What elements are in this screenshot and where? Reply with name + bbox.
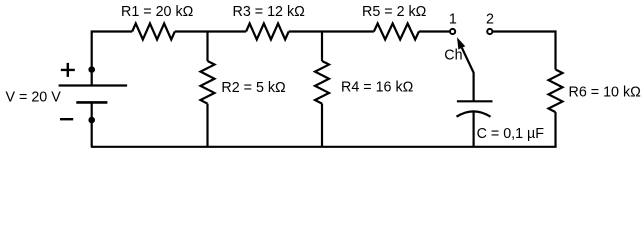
capacitor C top plate <box>457 100 493 102</box>
wire: R3 to R5 <box>289 30 374 32</box>
plus sign at battery <box>61 63 75 77</box>
switch Ch blade: diagonal arm and vertical drop to capacitor <box>462 48 474 101</box>
minus sign at battery <box>60 118 73 120</box>
battery V positive plate (long) <box>59 84 128 86</box>
resistor R6 <box>549 70 563 113</box>
svg-text:R2 = 5 kΩ: R2 = 5 kΩ <box>221 80 286 96</box>
resistor R3 <box>246 24 289 40</box>
svg-text:R6 = 10 kΩ: R6 = 10 kΩ <box>569 85 642 101</box>
svg-text:R4 = 16 kΩ: R4 = 16 kΩ <box>341 80 414 96</box>
wire: switch terminal 2 to top-right corner down to R6 <box>493 32 556 70</box>
svg-text:V = 20 V: V = 20 V <box>6 90 62 106</box>
switch terminal 2 (open circle) <box>487 29 492 34</box>
wire: bottom of R2 branch <box>206 104 208 147</box>
wire: R1 to R3 <box>175 30 246 32</box>
wire: battery - terminal down to bottom rail <box>91 102 93 146</box>
switch arrowhead pointing to terminal 1 <box>457 37 465 49</box>
resistor R2 <box>201 61 215 104</box>
wire: R5 to switch terminal 1 <box>419 30 450 32</box>
wire: top of R4 branch <box>321 32 323 62</box>
resistor R1 <box>132 24 175 40</box>
resistor R5 <box>374 24 419 40</box>
wire: battery + terminal up to top-left corner and right to R1 <box>92 32 133 87</box>
wire: top of R2 branch <box>206 32 208 62</box>
switch terminal 1 (open circle) <box>450 29 455 34</box>
svg-text:R1 = 20 kΩ: R1 = 20 kΩ <box>121 4 194 20</box>
resistor R4 <box>315 61 329 104</box>
wire: bottom of R4 branch <box>321 104 323 147</box>
svg-text:1: 1 <box>449 12 457 28</box>
svg-text:R3 = 12 kΩ: R3 = 12 kΩ <box>233 4 306 20</box>
svg-text:2: 2 <box>486 12 494 28</box>
battery V negative plate (short) <box>76 101 107 104</box>
wire: R6 to bottom rail <box>554 112 556 147</box>
junction dot: battery - terminal <box>88 117 95 124</box>
wire: capacitor to bottom rail <box>473 111 475 147</box>
svg-text:C = 0,1 µF: C = 0,1 µF <box>477 126 545 142</box>
svg-text:Ch: Ch <box>444 48 462 64</box>
capacitor C bottom curved plate <box>457 111 491 116</box>
junction dot: battery + terminal <box>88 66 95 73</box>
wire: bottom rail <box>91 146 557 148</box>
svg-text:R5 = 2 kΩ: R5 = 2 kΩ <box>362 4 427 20</box>
